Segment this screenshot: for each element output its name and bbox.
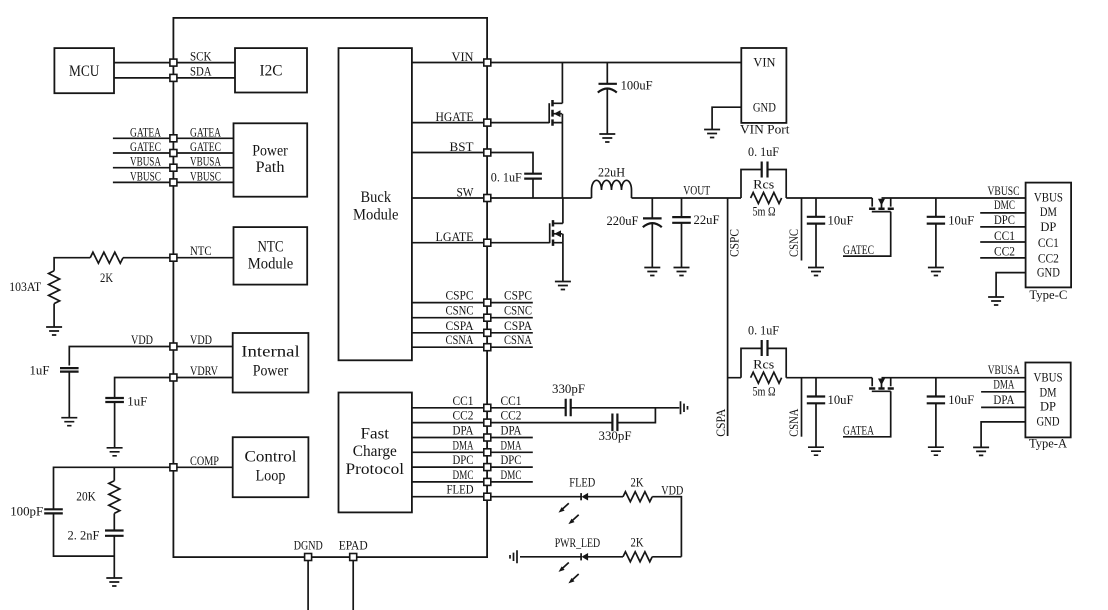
svg-text:CC1: CC1 <box>453 393 474 408</box>
svg-text:DPC: DPC <box>501 452 522 467</box>
svg-text:22uF: 22uF <box>694 212 720 227</box>
pin VBUSA <box>170 164 177 171</box>
ground (220uF) <box>644 268 660 276</box>
pin COMP <box>170 464 177 471</box>
wire Q2 drain to SW <box>562 198 564 223</box>
ground sideways (PWR_LED) <box>510 550 517 563</box>
capacitor 2.2nF <box>68 528 124 543</box>
I2C block <box>235 48 307 92</box>
svg-text:VBUSC: VBUSC <box>988 183 1020 198</box>
svg-text:Type-A: Type-A <box>1029 435 1068 450</box>
svg-text:VIN: VIN <box>753 55 776 70</box>
svg-text:VBUS: VBUS <box>1034 190 1063 205</box>
transistor Q4 PMOS (Type-A path) <box>869 378 894 392</box>
wire 1uF VDRV to ground <box>114 402 116 448</box>
svg-text:DP: DP <box>1040 398 1056 413</box>
svg-text:VOUT: VOUT <box>683 183 710 198</box>
wire 1uF to ground <box>68 372 70 418</box>
capacitor 100pF <box>10 504 63 519</box>
svg-text:VBUSA: VBUSA <box>988 362 1020 377</box>
wire GATEA <box>113 137 234 139</box>
svg-text:BST: BST <box>450 139 474 154</box>
svg-text:CSNA: CSNA <box>446 332 474 347</box>
transistor Q2 low-side NMOS <box>550 220 563 246</box>
svg-text:220uF: 220uF <box>607 213 639 228</box>
ground (10uF Type-C sense) <box>808 268 824 276</box>
svg-text:MCU: MCU <box>69 63 100 80</box>
ground (103AT) <box>46 327 62 335</box>
svg-text:1uF: 1uF <box>127 394 147 409</box>
Control Loop block <box>233 437 309 497</box>
ground (22uF) <box>674 268 690 276</box>
Buck Module block <box>339 48 412 360</box>
pin CSPC <box>484 299 491 306</box>
svg-text:GATEC: GATEC <box>843 242 874 257</box>
wire Q1 drain to VIN <box>561 63 563 104</box>
wire DPC stub <box>980 226 1025 228</box>
wire VBUSC <box>113 181 234 183</box>
Power Path block <box>234 123 308 196</box>
svg-text:DPA: DPA <box>501 423 523 438</box>
node CSPC/CSPA riser <box>727 198 729 436</box>
wire GATEC <box>113 152 234 154</box>
wire FLED <box>412 497 682 557</box>
ground (100uF) <box>599 134 615 142</box>
svg-text:Rcs: Rcs <box>753 177 774 192</box>
svg-text:330pF: 330pF <box>599 428 632 443</box>
svg-text:2K: 2K <box>631 475 644 490</box>
wire CSNA <box>412 346 533 348</box>
pin BST <box>484 149 491 156</box>
resistor 2K (NTC) <box>90 252 123 263</box>
MCU block <box>54 48 114 93</box>
wire VBUSA <box>113 167 234 169</box>
wire SW rail to inductor <box>412 197 592 199</box>
wire DMA stub <box>981 391 1025 393</box>
pin DPC <box>484 464 491 471</box>
svg-text:DM: DM <box>1040 384 1057 399</box>
wire CSPA <box>412 332 533 334</box>
wire PWR_LED row <box>520 556 681 558</box>
pin NTC <box>170 254 177 261</box>
svg-text:CC2: CC2 <box>1038 251 1059 266</box>
wire VIN from Buck to pin and VIN rail <box>412 62 741 64</box>
pin GATEA <box>170 135 177 142</box>
wire 2.2nF to ground <box>113 536 115 578</box>
ground (VIN Port) <box>704 130 720 138</box>
node CSNA stub <box>801 378 803 437</box>
svg-text:VIN: VIN <box>452 49 475 64</box>
wire Type-A GND <box>981 422 1025 448</box>
wire DMA <box>412 451 533 453</box>
wire MCU SCK to I2C <box>114 62 235 64</box>
svg-text:VIN Port: VIN Port <box>740 122 790 137</box>
wire EPAD down <box>352 561 354 610</box>
svg-text:CSPA: CSPA <box>504 318 533 333</box>
wire DMC stub <box>980 212 1025 214</box>
resistor Rcs (Type-C) with 0.1uF bypass <box>741 144 786 219</box>
svg-text:DP: DP <box>1040 219 1056 234</box>
svg-text:GATEA: GATEA <box>130 124 161 139</box>
pin GATEC <box>170 150 177 157</box>
wire GATEC gate <box>843 212 891 257</box>
wire CSPC <box>412 302 533 304</box>
pin DMA <box>484 449 491 456</box>
ground (1uF VDD) <box>61 418 77 426</box>
svg-text:Path: Path <box>256 159 285 176</box>
svg-text:20K: 20K <box>76 489 96 504</box>
svg-text:VDD: VDD <box>661 483 683 498</box>
svg-text:0. 1uF: 0. 1uF <box>748 323 779 338</box>
svg-text:VDD: VDD <box>131 332 153 347</box>
svg-text:DPA: DPA <box>993 392 1015 407</box>
VIN Port connector <box>740 48 790 137</box>
svg-text:CC1: CC1 <box>501 393 522 408</box>
svg-text:100uF: 100uF <box>621 77 653 92</box>
capacitor 1uF (VDRV) <box>105 394 147 409</box>
capacitor 1uF (VDD) <box>30 363 79 378</box>
svg-text:FLED: FLED <box>569 475 595 490</box>
svg-text:Fast: Fast <box>361 425 390 442</box>
capacitor 220uF <box>607 198 662 268</box>
svg-text:DPA: DPA <box>453 423 475 438</box>
svg-text:VBUSA: VBUSA <box>190 154 221 169</box>
svg-text:GATEA: GATEA <box>843 423 874 438</box>
ground (10uF Type-C out) <box>928 268 944 276</box>
resistor 2K (PWR_LED) <box>623 552 652 562</box>
svg-text:330pF: 330pF <box>552 381 585 396</box>
pin VDD <box>170 343 177 350</box>
svg-text:VDRV: VDRV <box>190 363 218 378</box>
svg-text:100pF: 100pF <box>10 504 43 519</box>
svg-text:1uF: 1uF <box>30 363 50 378</box>
wire HGATE <box>412 122 549 124</box>
capacitor 330pF (CC1) <box>552 381 585 417</box>
svg-text:DPC: DPC <box>994 212 1015 227</box>
wire CC2 stub <box>980 257 1025 259</box>
svg-text:CSNA: CSNA <box>786 408 801 436</box>
svg-text:CSPA: CSPA <box>446 318 475 333</box>
IC outline main chip <box>173 18 487 557</box>
svg-text:CC2: CC2 <box>453 408 474 423</box>
svg-text:Power: Power <box>253 362 289 379</box>
svg-text:DMA: DMA <box>993 377 1014 392</box>
svg-text:10uF: 10uF <box>948 392 974 407</box>
Internal Power block <box>233 333 309 393</box>
svg-text:HGATE: HGATE <box>436 109 474 124</box>
svg-text:103AT: 103AT <box>9 279 41 294</box>
ground (COMP network) <box>106 578 122 586</box>
resistor Rcs (Type-A) with 0.1uF bypass <box>741 323 786 399</box>
ground (10uF Type-A out) <box>928 447 944 455</box>
resistor 103AT thermistor <box>49 271 60 304</box>
svg-text:CC1: CC1 <box>994 228 1015 243</box>
resistor 20K <box>109 481 120 514</box>
svg-text:2K: 2K <box>631 535 644 550</box>
pin VDRV <box>170 374 177 381</box>
svg-text:NTC: NTC <box>258 239 284 256</box>
ground (Q2 source) <box>555 282 571 290</box>
svg-text:10uF: 10uF <box>948 213 974 228</box>
svg-text:2. 2nF: 2. 2nF <box>68 528 100 543</box>
svg-text:CSNC: CSNC <box>446 303 474 318</box>
svg-text:22uH: 22uH <box>598 165 625 180</box>
svg-text:CC2: CC2 <box>994 244 1015 259</box>
svg-text:Loop: Loop <box>256 468 286 485</box>
wire VIN Port GND <box>712 107 741 129</box>
svg-text:PWR_LED: PWR_LED <box>555 535 601 550</box>
ground (1uF VDRV) <box>107 448 123 456</box>
transistor Q1 high-side NMOS <box>549 100 562 126</box>
capacitor 10uF (Type-A sense) <box>807 378 854 448</box>
ground (Type-A) <box>973 447 989 455</box>
node CSNC stub <box>801 198 803 261</box>
capacitor 10uF (Type-C sense) <box>807 198 854 268</box>
svg-text:Rcs: Rcs <box>753 356 774 371</box>
svg-text:Module: Module <box>248 256 294 273</box>
svg-text:FLED: FLED <box>447 482 474 497</box>
svg-text:DMC: DMC <box>994 197 1015 212</box>
svg-text:VBUSC: VBUSC <box>130 168 161 183</box>
capacitor 22uF <box>672 198 719 268</box>
wire CC1 stub <box>980 241 1025 243</box>
wire Q2 source to ground <box>562 243 564 282</box>
svg-text:Buck: Buck <box>361 189 392 206</box>
pin CC1 <box>484 404 491 411</box>
wire DPA <box>412 437 533 439</box>
svg-text:CSPC: CSPC <box>727 229 742 257</box>
svg-text:Protocol: Protocol <box>346 461 405 478</box>
svg-text:GND: GND <box>1037 414 1060 429</box>
wire VDRV <box>115 378 234 399</box>
pin DGND <box>305 554 312 561</box>
svg-text:COMP: COMP <box>190 453 219 468</box>
svg-text:5m Ω: 5m Ω <box>753 383 776 398</box>
svg-text:VBUS: VBUS <box>1034 369 1063 384</box>
ground (10uF Type-A sense) <box>808 447 824 455</box>
svg-text:CSNC: CSNC <box>504 303 532 318</box>
svg-text:VBUSC: VBUSC <box>190 168 221 183</box>
svg-text:LGATE: LGATE <box>436 229 474 244</box>
svg-text:2K: 2K <box>100 270 113 285</box>
wire 103AT to ground <box>53 304 55 327</box>
capacitor 100uF <box>598 63 653 135</box>
svg-text:CSPC: CSPC <box>504 288 532 303</box>
wire 20K to 2.2nF <box>113 513 115 530</box>
svg-text:DMA: DMA <box>453 437 474 452</box>
wire CC2 <box>412 408 656 423</box>
capacitor 10uF (Type-C out) <box>927 198 975 268</box>
pin SW <box>484 195 491 202</box>
svg-text:CC1: CC1 <box>1038 235 1059 250</box>
svg-text:NTC: NTC <box>190 243 212 258</box>
wire Type-C GND <box>996 273 1026 297</box>
svg-text:10uF: 10uF <box>828 392 854 407</box>
Type-C connector <box>1026 183 1072 302</box>
svg-text:CSPA: CSPA <box>713 408 728 437</box>
wire BST cap to SW <box>532 179 534 198</box>
pin SDA <box>170 74 177 81</box>
NTC Module block <box>234 227 308 285</box>
pin HGATE <box>484 119 491 126</box>
svg-text:10uF: 10uF <box>828 213 854 228</box>
capacitor 0.1uF (bootstrap) <box>491 169 542 184</box>
svg-text:DMC: DMC <box>453 467 474 482</box>
LED PWR_LED <box>581 553 588 561</box>
svg-text:0. 1uF: 0. 1uF <box>748 144 779 159</box>
LED arrows (PWR_LED) <box>559 563 579 584</box>
pin EPAD <box>350 554 357 561</box>
svg-text:DM: DM <box>1040 204 1057 219</box>
wire VOUT rail <box>632 197 1026 199</box>
svg-text:GND: GND <box>1037 265 1060 280</box>
wire DPC <box>412 466 533 468</box>
transistor Q3 PMOS (Type-C path) <box>869 198 894 212</box>
ground (Type-C) <box>988 297 1004 305</box>
capacitor 330pF (CC2) <box>599 414 632 444</box>
wire NTC <box>54 258 233 271</box>
svg-text:CSNC: CSNC <box>786 229 801 257</box>
wire DMC <box>412 481 533 483</box>
ground (CC lines) <box>681 401 688 414</box>
svg-text:Type-C: Type-C <box>1029 287 1067 302</box>
wire CSNC <box>412 317 533 319</box>
pin VBUSC <box>170 179 177 186</box>
wire COMP <box>54 467 234 556</box>
wire Q1 source to SW <box>561 123 563 198</box>
pin CSPA <box>484 329 491 336</box>
wire MCU SDA to I2C <box>114 77 235 79</box>
pin DMC <box>484 478 491 485</box>
svg-text:0. 1uF: 0. 1uF <box>491 169 522 184</box>
svg-text:SCK: SCK <box>190 48 212 63</box>
svg-text:GATEC: GATEC <box>190 139 221 154</box>
svg-text:DGND: DGND <box>294 538 323 553</box>
svg-text:DPC: DPC <box>453 452 474 467</box>
svg-text:CC2: CC2 <box>501 408 522 423</box>
pin VIN <box>484 59 491 66</box>
svg-text:CSNA: CSNA <box>504 332 532 347</box>
wire LGATE <box>412 242 550 244</box>
wire VBUSA rail (Type-A row) <box>728 377 1026 379</box>
Fast Charge Protocol block <box>339 393 412 513</box>
svg-text:Internal: Internal <box>241 344 300 361</box>
pin CC2 <box>484 419 491 426</box>
wire DGND down <box>307 561 309 610</box>
resistor 2K (FLED) <box>623 492 652 502</box>
wire DPA stub <box>981 406 1025 408</box>
svg-text:DMC: DMC <box>501 467 522 482</box>
wire VDD rail <box>69 347 233 366</box>
pin CSNA <box>484 344 491 351</box>
svg-text:SW: SW <box>457 184 475 199</box>
svg-text:GATEA: GATEA <box>190 124 221 139</box>
svg-text:Control: Control <box>245 449 298 466</box>
svg-text:GND: GND <box>753 99 776 114</box>
svg-text:VDD: VDD <box>190 332 212 347</box>
wire GATEA gate <box>843 391 891 437</box>
inductor 22uH <box>592 165 632 199</box>
svg-text:Power: Power <box>252 142 288 159</box>
svg-text:5m Ω: 5m Ω <box>753 204 776 219</box>
wire CC1 <box>412 407 679 409</box>
svg-text:VBUSA: VBUSA <box>130 154 161 169</box>
svg-text:GATEC: GATEC <box>130 139 161 154</box>
svg-text:CSPC: CSPC <box>446 288 474 303</box>
svg-text:Charge: Charge <box>353 443 397 460</box>
pin DPA <box>484 434 491 441</box>
LED arrows (FLED) <box>559 503 579 524</box>
pin CSNC <box>484 314 491 321</box>
LED FLED <box>581 493 588 501</box>
pin LGATE <box>484 239 491 246</box>
Type-A connector <box>1025 363 1070 451</box>
pin FLED <box>484 493 491 500</box>
svg-text:EPAD: EPAD <box>339 538 368 553</box>
svg-text:DMA: DMA <box>501 437 522 452</box>
pin SCK <box>170 59 177 66</box>
capacitor 10uF (Type-A out) <box>927 378 975 448</box>
svg-text:Module: Module <box>353 207 399 224</box>
wire BST <box>412 153 533 174</box>
svg-text:I2C: I2C <box>260 63 283 80</box>
svg-text:SDA: SDA <box>190 64 212 79</box>
